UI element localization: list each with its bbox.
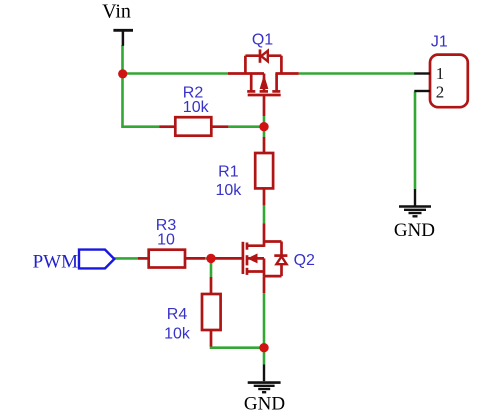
svg-text:10k: 10k [183, 99, 210, 116]
svg-text:J1: J1 [431, 34, 448, 51]
svg-text:10: 10 [157, 232, 175, 249]
svg-text:PWM: PWM [33, 252, 79, 273]
svg-text:Q1: Q1 [252, 32, 273, 49]
svg-text:1: 1 [436, 64, 445, 83]
svg-text:R4: R4 [167, 306, 188, 323]
svg-text:R1: R1 [218, 164, 239, 181]
svg-text:2: 2 [436, 83, 445, 102]
svg-text:10k: 10k [164, 326, 191, 343]
svg-text:Q2: Q2 [294, 252, 315, 269]
svg-text:GND: GND [244, 393, 285, 413]
svg-text:10k: 10k [216, 182, 243, 199]
svg-text:Vin: Vin [102, 1, 131, 23]
svg-text:GND: GND [394, 220, 435, 241]
